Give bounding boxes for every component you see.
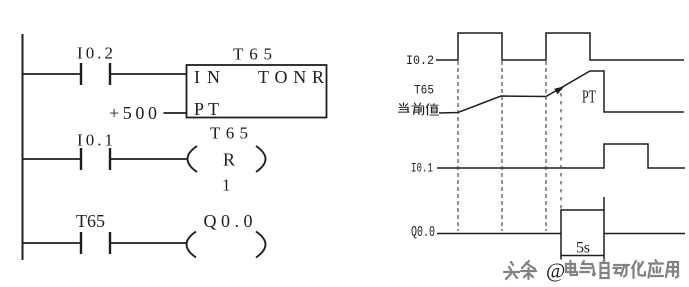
coil R (reset T65)	[188, 146, 266, 172]
svg-text:5s: 5s	[576, 240, 590, 257]
svg-text:Q0.0: Q0.0	[204, 211, 253, 231]
wire rung3 left	[23, 242, 80, 244]
条	[521, 261, 536, 279]
svg-text:IN: IN	[194, 67, 220, 87]
left power rail	[22, 34, 24, 260]
dashed line t3	[545, 61, 547, 231]
wire rung2 left	[23, 158, 80, 160]
wire rung1 to timer	[111, 73, 186, 75]
svg-text:T65: T65	[233, 45, 272, 64]
svg-text:T65: T65	[76, 211, 105, 231]
动	[614, 265, 630, 277]
前	[412, 103, 424, 115]
extension line left of 5s	[560, 234, 562, 260]
waveform T65 current value ramp	[439, 71, 684, 113]
coil Q0.0	[187, 232, 266, 258]
dashed line t2	[501, 61, 503, 231]
extension line right of 5s	[603, 197, 605, 260]
contact I0.1	[81, 148, 110, 170]
头	[504, 262, 519, 279]
contact T65	[81, 232, 110, 254]
waveform I0.2	[436, 33, 684, 60]
svg-text:@: @	[546, 259, 565, 283]
svg-text:I0.2: I0.2	[406, 53, 434, 68]
svg-text:I0.1: I0.1	[411, 161, 433, 176]
waveform Q0.0	[437, 210, 685, 234]
svg-text:T65: T65	[210, 124, 248, 143]
电	[566, 261, 577, 275]
值	[427, 104, 439, 115]
svg-text:1: 1	[222, 176, 231, 195]
svg-text:T65: T65	[414, 83, 434, 98]
wire rung1 left	[23, 73, 80, 75]
dashed line t1	[457, 61, 459, 231]
svg-text:Q0.0: Q0.0	[411, 225, 435, 241]
dashed line t4 (at Q0.0 rise)	[560, 93, 562, 209]
waveform I0.1	[437, 144, 685, 168]
化	[632, 261, 645, 278]
wire rung3 to coil	[111, 242, 186, 244]
watermark 头条 @电气自动化应用	[504, 260, 678, 279]
当	[399, 103, 410, 112]
dimension line 5s	[561, 255, 604, 257]
用	[666, 262, 678, 278]
timer box U-T65	[187, 65, 327, 118]
wire PT input	[164, 112, 187, 114]
arrow on ramp	[554, 86, 564, 94]
wire rung2 to coil	[111, 158, 188, 160]
svg-text:PT: PT	[582, 87, 596, 107]
label 当前值 (current value, drawn glyphs)	[399, 103, 439, 115]
气	[580, 261, 595, 275]
contact I0.2	[81, 63, 110, 85]
应	[649, 260, 664, 278]
svg-text:R: R	[223, 150, 235, 170]
自	[601, 260, 609, 278]
